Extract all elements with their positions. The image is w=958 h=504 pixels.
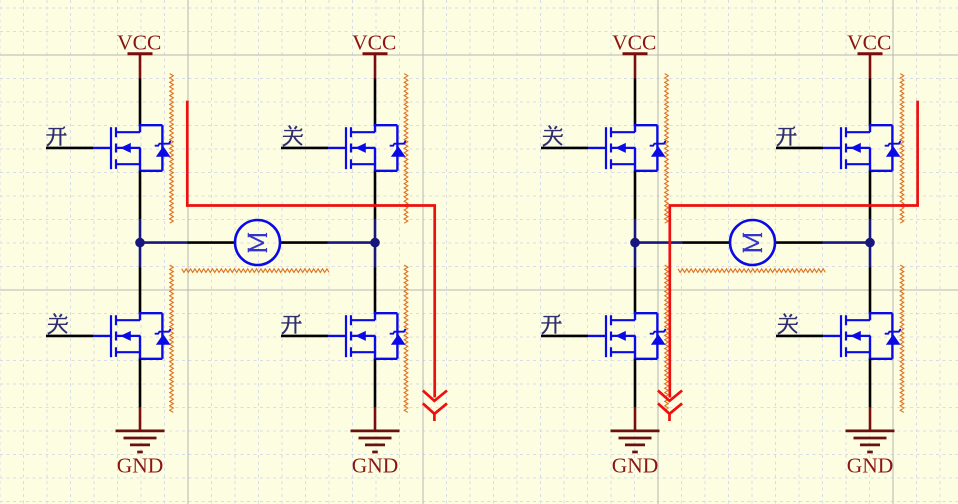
- svg-text:GND: GND: [352, 453, 399, 477]
- wire gate of Q4: [281, 335, 328, 338]
- motor M1: [235, 220, 280, 265]
- node junction left: [135, 238, 145, 248]
- wire motor to node right: [280, 241, 328, 244]
- svg-text:VCC: VCC: [612, 31, 656, 55]
- wire Q4 source to GND: [374, 359, 377, 408]
- svg-text:GND: GND: [847, 453, 894, 477]
- wire node to Q3 drain: [139, 247, 142, 268]
- label 关 (Q3): [48, 314, 68, 334]
- power port VCC (leg 3): [612, 31, 656, 79]
- svg-text:VCC: VCC: [847, 31, 891, 55]
- label 关 (Q2): [283, 126, 303, 146]
- arrow chevrons net 2: [658, 391, 682, 422]
- power port VCC (leg 1): [117, 31, 161, 79]
- wire node to motor left: [140, 241, 188, 244]
- motor M2: [730, 220, 775, 265]
- wire node to Q4 drain: [374, 247, 377, 268]
- wire VCC to Q5 drain: [634, 79, 637, 127]
- wire node to Q7 drain: [634, 247, 637, 268]
- transistor Q4 (lower): [328, 313, 406, 359]
- svg-text:GND: GND: [117, 453, 164, 477]
- wire Q5 source to node: [634, 171, 637, 219]
- label 开 (Q4): [281, 315, 301, 334]
- wire Q2 source to node: [374, 171, 377, 219]
- wire node to motor left: [635, 241, 683, 244]
- transistor Q8 (lower): [823, 313, 901, 359]
- transistor Q3 (lower): [93, 313, 171, 359]
- ground GND (leg): [351, 408, 400, 478]
- label 开 (Q7): [541, 315, 561, 334]
- wire VCC to Q6 drain: [869, 79, 872, 127]
- wire Q1 source to node: [139, 171, 142, 219]
- wire gate of Q5: [541, 147, 588, 150]
- wire gate of Q7: [541, 335, 588, 338]
- wire motor to node right: [775, 241, 823, 244]
- svg-text:GND: GND: [612, 453, 659, 477]
- label 开 (Q1): [46, 127, 66, 146]
- node junction right: [865, 238, 875, 248]
- wire Q7 source to GND: [634, 359, 637, 408]
- node junction left: [630, 238, 640, 248]
- wire gate of Q3: [46, 335, 93, 338]
- label 开 (Q6): [776, 127, 796, 146]
- wire VCC to Q1 drain: [139, 79, 142, 127]
- wire gate of Q2: [281, 147, 328, 150]
- transistor Q6 (upper): [823, 125, 901, 171]
- transistor Q2 (upper): [328, 125, 406, 171]
- power port VCC (leg 2): [352, 31, 396, 79]
- wire gate of Q8: [776, 335, 823, 338]
- ground GND (leg): [846, 408, 895, 478]
- transistor Q1 (upper): [93, 125, 171, 171]
- red wire net 1 (left bridge): [187, 101, 434, 398]
- power port VCC (leg 4): [847, 31, 891, 79]
- arrow chevrons net 1: [423, 391, 447, 422]
- label 关 (Q8): [778, 314, 798, 334]
- wire node to Q8 drain: [869, 247, 872, 268]
- wire Q8 source to GND: [869, 359, 872, 408]
- transistor Q7 (lower): [588, 313, 666, 359]
- label 关 (Q5): [543, 126, 563, 146]
- ground GND (leg): [611, 408, 660, 478]
- wire Q6 source to node: [869, 171, 872, 219]
- svg-text:VCC: VCC: [352, 31, 396, 55]
- svg-text:VCC: VCC: [117, 31, 161, 55]
- node junction right: [370, 238, 380, 248]
- highlight wavy marks: [170, 74, 904, 413]
- transistor Q5 (upper): [588, 125, 666, 171]
- wire gate of Q1: [46, 147, 93, 150]
- wire gate of Q6: [776, 147, 823, 150]
- wire VCC to Q2 drain: [374, 79, 377, 127]
- ground GND (leg): [116, 408, 165, 478]
- wire Q3 source to GND: [139, 359, 142, 408]
- red wire net 2 (right bridge): [670, 101, 918, 398]
